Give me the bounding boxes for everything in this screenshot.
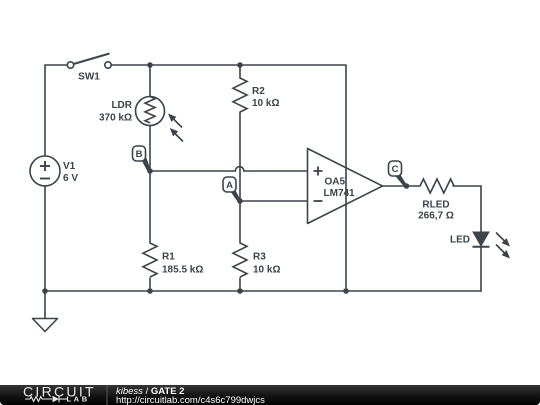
svg-text:A: A: [226, 180, 233, 191]
junction node B: [147, 168, 153, 174]
wire LED to bottom rail: [480, 247, 482, 291]
svg-text:B: B: [136, 149, 143, 160]
wire down to LED: [480, 186, 482, 232]
svg-text:LAB: LAB: [67, 395, 90, 404]
wire ground stem: [44, 291, 46, 319]
CircuitLab logo: [23, 383, 96, 403]
node B: [133, 146, 151, 172]
switch SW1: [67, 54, 111, 69]
wire node A to op-amp minus input: [240, 200, 308, 202]
op-amp OA5: [308, 149, 383, 224]
wire R2 top lead: [239, 65, 241, 78]
junction node C: [404, 183, 410, 189]
svg-text:R3: R3: [253, 252, 266, 263]
wire bottom rail: [45, 290, 481, 292]
node C: [389, 161, 408, 187]
wire RLED to corner: [453, 185, 481, 187]
junction top rail / LDR: [147, 62, 153, 68]
junction bottom rail / supply: [343, 288, 349, 294]
svg-text:185.5 kΩ: 185.5 kΩ: [162, 265, 203, 276]
svg-text:LDR: LDR: [111, 100, 132, 111]
wire R3 bottom lead: [239, 278, 241, 291]
junction top rail / R2: [237, 62, 243, 68]
footer bar: [0, 385, 540, 405]
voltage source V1: [30, 156, 60, 186]
footer divider: [106, 385, 108, 405]
resistor R3: [233, 243, 247, 277]
wire left rail upper: [44, 65, 46, 156]
svg-text:LM741: LM741: [324, 188, 356, 199]
svg-text:10 kΩ: 10 kΩ: [252, 98, 279, 109]
wire op-amp supply rail vertical: [345, 65, 347, 291]
wire left rail lower: [44, 186, 46, 291]
svg-text:266,7 Ω: 266,7 Ω: [418, 211, 454, 222]
svg-text:LED: LED: [450, 235, 470, 246]
wire node B to op-amp plus input, broken at hop: [150, 170, 235, 172]
wire R2 to node A to R3: [239, 112, 241, 243]
resistor R2: [233, 78, 247, 112]
wire R1 bottom lead: [149, 278, 151, 291]
junction bottom rail / ground: [42, 288, 48, 294]
svg-text:V1: V1: [63, 161, 76, 172]
wire crossover hop at x=240: [235, 167, 244, 171]
svg-text:370 kΩ: 370 kΩ: [99, 112, 132, 123]
svg-text:C: C: [392, 164, 399, 175]
wire LDR branch upper: [149, 65, 151, 97]
diode LED: [473, 232, 511, 259]
svg-text:6 V: 6 V: [63, 173, 78, 184]
junction bottom rail / R3: [237, 288, 243, 294]
CircuitLab logo resistor-diode squiggle: [25, 396, 67, 403]
ground: [33, 319, 58, 332]
svg-text:R1: R1: [162, 252, 175, 263]
svg-text:RLED: RLED: [422, 200, 449, 211]
svg-text:R2: R2: [252, 86, 265, 97]
node A: [223, 177, 241, 202]
svg-text:10 kΩ: 10 kΩ: [253, 265, 280, 276]
wire top rail left segment: [45, 64, 67, 66]
junction bottom rail / R1: [147, 288, 153, 294]
svg-text:http://circuitlab.com/c4s6c799: http://circuitlab.com/c4s6c799dwjcs: [116, 395, 265, 405]
wire op-amp output to RLED: [383, 185, 421, 187]
resistor RLED: [420, 179, 454, 193]
wire LDR to node B: [149, 126, 151, 244]
resistor R1: [143, 243, 157, 277]
junction node A: [237, 198, 243, 204]
wire top rail right segment: [112, 64, 347, 66]
svg-text:SW1: SW1: [78, 72, 100, 83]
svg-text:OA5: OA5: [325, 177, 346, 188]
photoresistor LDR: [136, 97, 184, 142]
